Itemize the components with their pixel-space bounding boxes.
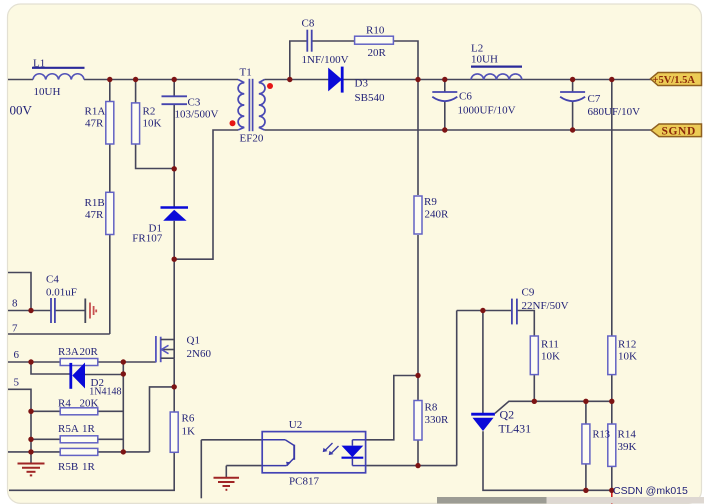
svg-text:C8: C8 [302,18,315,30]
svg-text:10UH: 10UH [34,86,61,98]
svg-text:1NF/100V: 1NF/100V [302,54,349,66]
svg-text:SB540: SB540 [355,92,385,104]
svg-text:C7: C7 [588,93,601,105]
svg-text:1000UF/10V: 1000UF/10V [458,105,516,117]
svg-text:240R: 240R [425,209,450,221]
svg-text:00V: 00V [10,103,33,118]
svg-text:PC817: PC817 [289,476,319,488]
svg-text:L1: L1 [33,58,45,70]
svg-text:R3A: R3A [58,346,79,358]
svg-text:103/500V: 103/500V [175,109,219,121]
svg-text:R5B: R5B [58,461,78,473]
svg-text:330R: 330R [425,414,450,426]
svg-text:39K: 39K [618,441,637,453]
svg-text:20R: 20R [80,346,99,358]
svg-text:20R: 20R [368,47,387,59]
svg-text:FR107: FR107 [132,233,162,245]
svg-text:10K: 10K [618,351,637,363]
svg-text:R11: R11 [541,339,559,351]
svg-text:1R: 1R [82,461,96,473]
svg-text:C9: C9 [522,287,535,299]
svg-text:U2: U2 [289,419,302,431]
svg-text:R9: R9 [424,196,437,208]
svg-text:C6: C6 [459,91,472,103]
svg-text:R6: R6 [182,413,195,425]
svg-text:47R: 47R [85,209,104,221]
svg-text:T1: T1 [240,67,252,79]
svg-text:5: 5 [14,377,20,389]
svg-text:10K: 10K [541,351,560,363]
svg-text:8: 8 [12,298,18,310]
svg-text:R8: R8 [425,402,438,414]
svg-text:TL431: TL431 [499,422,532,436]
svg-text:7: 7 [12,323,18,335]
svg-text:+5V/1.5A: +5V/1.5A [653,75,696,86]
svg-text:2N60: 2N60 [187,348,212,360]
svg-text:Q1: Q1 [187,335,200,347]
svg-text:0.01uF: 0.01uF [46,287,77,299]
svg-text:D3: D3 [355,78,369,90]
svg-text:SGND: SGND [662,126,696,138]
svg-text:R2: R2 [143,106,156,118]
svg-text:C4: C4 [46,274,59,286]
svg-text:6: 6 [14,349,20,361]
svg-text:R14: R14 [618,429,637,441]
svg-text:1R: 1R [82,423,96,435]
svg-text:1N4148: 1N4148 [89,387,121,398]
svg-text:R12: R12 [618,339,636,351]
svg-text:R13: R13 [593,430,611,441]
svg-text:10UH: 10UH [471,53,498,65]
svg-text:Q2: Q2 [500,408,515,422]
svg-text:1K: 1K [182,426,196,438]
svg-text:CSDN @mk015: CSDN @mk015 [613,485,688,497]
svg-text:R4: R4 [58,398,71,410]
svg-text:680UF/10V: 680UF/10V [588,106,641,118]
svg-text:20K: 20K [80,398,99,410]
svg-text:10K: 10K [143,118,162,130]
svg-text:R5A: R5A [58,423,79,435]
svg-text:R1A: R1A [85,106,106,118]
svg-text:C3: C3 [188,97,201,109]
svg-text:22NF/50V: 22NF/50V [522,300,569,312]
svg-text:EF20: EF20 [240,133,264,145]
svg-text:R10: R10 [366,25,385,37]
svg-text:47R: 47R [85,118,104,130]
svg-text:R1B: R1B [85,197,105,209]
